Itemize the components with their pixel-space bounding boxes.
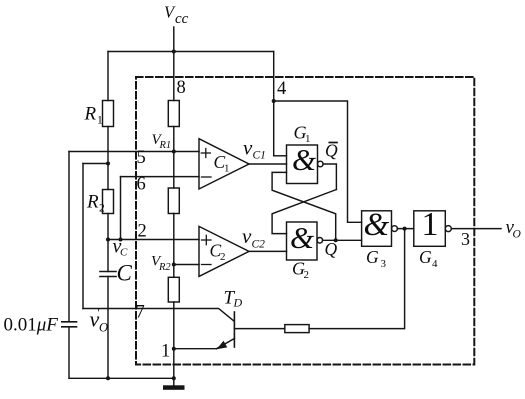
pin 7 label xyxy=(136,303,145,323)
node Vcc junction xyxy=(172,50,176,54)
wire pin4 to G1 input1 xyxy=(274,155,287,157)
pin 5 label xyxy=(137,148,146,168)
capacitor C xyxy=(100,272,116,277)
label G1 xyxy=(294,123,311,146)
comparator C2 xyxy=(199,226,249,276)
pin 6 label xyxy=(137,175,146,195)
node VR2 xyxy=(172,263,176,267)
comparator C1 xyxy=(199,139,249,189)
svg-text:2: 2 xyxy=(304,269,310,281)
pin 6 branch vertical xyxy=(120,177,122,240)
svg-text:R: R xyxy=(84,104,97,125)
node pin6 junction xyxy=(119,238,123,242)
resistor base (horizontal) xyxy=(285,325,309,333)
label VR2 xyxy=(151,254,171,273)
svg-text:1: 1 xyxy=(161,342,170,362)
wire divider c to ground xyxy=(173,302,175,386)
svg-text:1: 1 xyxy=(305,133,311,145)
svg-text:1: 1 xyxy=(422,206,439,243)
wire G1 output Qbar xyxy=(323,164,336,190)
pin 1 label xyxy=(161,342,170,362)
label G4 xyxy=(419,247,438,270)
wire R2 to C xyxy=(107,214,109,272)
svg-text:C: C xyxy=(117,261,133,286)
pin 4 wire down xyxy=(273,52,275,156)
svg-text:1: 1 xyxy=(97,115,103,127)
wire C1 output xyxy=(249,163,287,165)
svg-text:Q: Q xyxy=(325,141,338,161)
svg-text:R1: R1 xyxy=(159,140,172,151)
label 0.01uF xyxy=(4,315,59,336)
wire G3 to G4 xyxy=(397,228,413,230)
gate G4 xyxy=(414,211,446,247)
wire bottom ground rail xyxy=(69,377,174,379)
svg-text:2: 2 xyxy=(99,203,105,215)
node pin1 junction xyxy=(172,347,176,351)
node R1-R2 junction xyxy=(106,162,110,166)
pin 3 label xyxy=(461,229,470,249)
svg-text:7: 7 xyxy=(136,303,145,323)
label G2 xyxy=(292,259,309,282)
capacitor 0.01uF xyxy=(62,322,77,327)
G2 output bubble xyxy=(317,238,323,244)
svg-text:C2: C2 xyxy=(252,238,266,250)
node ground rail left junction xyxy=(106,376,110,380)
svg-text:v: v xyxy=(243,136,253,160)
label vC2 xyxy=(242,224,265,251)
svg-text:Q: Q xyxy=(325,239,338,259)
label C1 inside xyxy=(214,152,230,175)
svg-text:&: & xyxy=(290,220,314,255)
wire output pin 3 xyxy=(451,228,501,230)
svg-text:2: 2 xyxy=(220,251,226,263)
svg-text:4: 4 xyxy=(432,258,438,270)
svg-text:3: 3 xyxy=(381,258,387,270)
pin 8 label xyxy=(177,78,186,98)
svg-text:4: 4 xyxy=(277,79,286,99)
label C2 inside xyxy=(210,241,226,264)
wire emitter to pin1 xyxy=(174,348,217,350)
svg-text:D: D xyxy=(233,296,243,310)
svg-text:′: ′ xyxy=(97,305,100,320)
wire R1R2 junction to pin7 branch xyxy=(83,163,108,165)
transistor emitter xyxy=(217,339,235,349)
svg-text:O: O xyxy=(513,229,522,241)
wire divider b-c xyxy=(173,214,175,278)
G3 output bubble xyxy=(392,226,398,232)
internal divider resistor a (pin 8 branch) xyxy=(168,101,179,127)
wire cross diagonal Q to G1 xyxy=(272,172,336,240)
svg-text:G: G xyxy=(366,247,379,267)
pin 2 label xyxy=(138,222,147,242)
node VR1 xyxy=(172,150,176,154)
label TD xyxy=(224,288,243,310)
label R2 xyxy=(86,192,105,215)
svg-text:C: C xyxy=(120,247,128,259)
svg-text:&: & xyxy=(364,207,390,243)
label Vcc xyxy=(164,3,189,28)
label C xyxy=(117,261,133,286)
svg-text:8: 8 xyxy=(177,78,186,98)
wire G2 output Q to G3 xyxy=(323,239,362,241)
svg-text:v: v xyxy=(242,224,252,248)
svg-text:5: 5 xyxy=(137,148,146,168)
gate G3 xyxy=(362,211,392,247)
G1 output bubble xyxy=(318,161,324,167)
wire Vcc lead xyxy=(173,27,175,101)
svg-text:2: 2 xyxy=(138,222,147,242)
label vO xyxy=(506,217,522,241)
svg-text:cc: cc xyxy=(175,11,189,27)
wire left control branch down xyxy=(68,152,70,322)
wire divider a-b xyxy=(173,127,175,189)
gate G2 xyxy=(287,222,318,260)
label vC xyxy=(113,236,129,259)
dashed IC boundary xyxy=(136,77,474,365)
wire G4 input feedback down to base resistor xyxy=(309,229,405,329)
pin 5 wire (VR1 to left and to C1 +) xyxy=(69,151,199,153)
svg-text:0.01μF: 0.01μF xyxy=(4,315,59,336)
label Q xyxy=(325,239,338,259)
svg-text:C1: C1 xyxy=(253,150,266,162)
internal divider resistor c xyxy=(168,277,179,302)
node vC junction xyxy=(106,238,110,242)
wire 0.01uF to ground rail xyxy=(68,327,70,379)
svg-text:R: R xyxy=(86,192,99,213)
svg-text:R2: R2 xyxy=(158,262,171,273)
transistor TD xyxy=(233,312,235,347)
label vC1 xyxy=(243,136,266,162)
svg-text:G: G xyxy=(419,247,432,267)
label G3 xyxy=(366,247,387,270)
node pin4 junction xyxy=(272,99,276,103)
pin 2 wire xyxy=(108,239,199,241)
wire pin7 left vertical xyxy=(82,164,84,309)
wire R1 to R2 xyxy=(107,127,109,190)
gate G1 xyxy=(287,145,318,184)
svg-text:&: & xyxy=(292,142,316,177)
wire VR2 to C2 minus xyxy=(174,264,199,266)
pin 7 wire xyxy=(83,309,234,322)
wire top Vcc rail xyxy=(108,51,274,53)
node G3 output junction xyxy=(403,227,407,231)
pin 4 label xyxy=(277,79,286,99)
label vO' xyxy=(90,305,109,335)
G4 output bubble xyxy=(445,226,451,232)
wire C2 output xyxy=(249,250,287,252)
wire cross diagonal Qbar to G2 xyxy=(272,190,336,234)
node ground rail junction xyxy=(172,376,176,380)
label VR1 xyxy=(152,132,172,151)
svg-text:3: 3 xyxy=(461,229,470,249)
wire pin4 across to G3 xyxy=(274,101,362,222)
node Q junction xyxy=(334,238,338,242)
ground xyxy=(163,385,185,390)
svg-text:6: 6 xyxy=(137,175,146,195)
internal divider resistor b xyxy=(168,188,179,214)
label Qbar xyxy=(325,141,338,161)
pin 6 wire xyxy=(121,176,200,178)
label R1 xyxy=(84,104,104,127)
svg-text:1: 1 xyxy=(224,163,230,175)
resistor R2 xyxy=(103,190,114,214)
svg-text:O: O xyxy=(99,321,108,335)
wire C to ground rail xyxy=(107,277,109,379)
resistor R1 xyxy=(103,101,114,127)
wire left branch down to R1 xyxy=(107,52,109,101)
wire base resistor to transistor xyxy=(234,328,284,330)
